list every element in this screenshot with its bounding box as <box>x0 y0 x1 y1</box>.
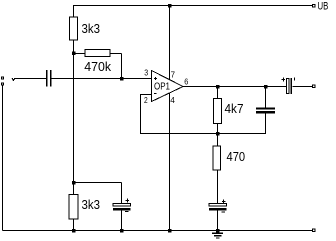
svg-text:7: 7 <box>171 69 176 79</box>
svg-text:6: 6 <box>184 76 188 86</box>
svg-text:4k7: 4k7 <box>225 101 244 116</box>
svg-text:3: 3 <box>144 68 148 78</box>
svg-text:3k3: 3k3 <box>82 197 101 212</box>
svg-text:OP1: OP1 <box>154 82 170 93</box>
svg-text:470: 470 <box>227 149 246 164</box>
svg-text:3k3: 3k3 <box>82 21 101 36</box>
svg-text:UB: UB <box>318 1 329 13</box>
svg-text:2: 2 <box>144 95 148 105</box>
svg-text:470k: 470k <box>84 59 111 74</box>
svg-text:4: 4 <box>170 95 175 105</box>
